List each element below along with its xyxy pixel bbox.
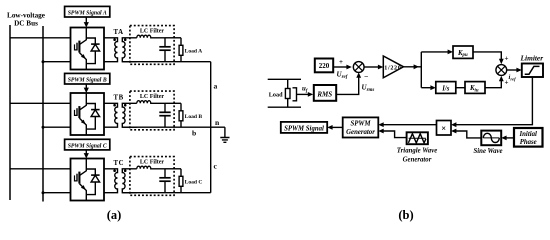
transformer TA primary winding	[104, 38, 118, 62]
filter inductor LC	[137, 166, 165, 169]
wire: filter bottom rail phase B	[122, 126, 181, 128]
svg-text:Limiter: Limiter	[520, 54, 544, 63]
svg-text:Load: Load	[269, 92, 283, 99]
LC filter dotted box phase B	[130, 91, 174, 130]
filter inductor LB	[137, 101, 165, 104]
IGBT QC: body bar	[78, 172, 80, 184]
filter capacitor CB	[164, 103, 166, 112]
svg-text:TA: TA	[114, 29, 124, 36]
IGBT QC: emitter with arrow	[79, 184, 86, 201]
SPWM Signal C label box	[65, 139, 110, 150]
svg-text:SPWM Signal A: SPWM Signal A	[68, 10, 107, 17]
transformer TC secondary polarity dot	[124, 169, 127, 172]
LC filter dotted box phase C	[130, 157, 174, 196]
svg-text:LC Filter: LC Filter	[140, 29, 164, 35]
wire: branch to 1/s with arrow	[421, 87, 432, 89]
svg-text:SPWM Signal B: SPWM Signal B	[68, 77, 108, 84]
IGBT QB: body bar	[78, 106, 80, 118]
branch node vertical	[420, 52, 422, 88]
wire: SPWM signal C arrow into inverter gate	[85, 150, 87, 155]
wire: 1/s to K_iu	[456, 87, 465, 89]
SPWM Signal B label box	[65, 73, 110, 84]
wire: SPWM signal B arrow into inverter gate	[85, 84, 87, 89]
transformer TA primary polarity dot	[113, 38, 116, 41]
K_pu proportional gain box	[453, 46, 473, 58]
IGBT QA: gate bar	[76, 43, 78, 51]
wire: inductor to load C top	[165, 168, 181, 170]
ground symbol	[220, 138, 229, 143]
load resistor Load A	[180, 38, 182, 46]
inverter box phase A	[71, 28, 105, 70]
IGBT QA: emitter with arrow	[79, 53, 86, 70]
wire: SPWM generator to SPWM signal	[331, 126, 343, 128]
wire: filter bottom rail phase A	[122, 61, 181, 63]
svg-text:1/220: 1/220	[384, 65, 401, 71]
load element in control diagram	[268, 79, 301, 107]
IGBT QC: collector lead	[79, 159, 86, 176]
K_iu integral gain box	[465, 82, 485, 94]
wire: load B output through node n	[181, 126, 225, 128]
IGBT QB: collector lead	[79, 93, 86, 110]
svg-text:SPWM Signal: SPWM Signal	[284, 125, 324, 132]
IGBT QC: gate lead	[75, 175, 77, 181]
multiplier box	[437, 121, 452, 136]
wire: neutral drop to ground	[224, 127, 226, 137]
filter inductor LA	[137, 35, 165, 38]
summing junction circle 2	[496, 65, 507, 76]
svg-text:SPWM: SPWM	[350, 121, 371, 128]
svg-text:Load A: Load A	[185, 48, 203, 54]
LC filter dotted box phase A	[130, 26, 174, 65]
wire: limiter output down and left to multiplier	[455, 77, 533, 125]
svg-text:220: 220	[319, 62, 330, 70]
limiter box with saturation curve	[522, 64, 543, 78]
wire: initial phase to sine wave	[505, 137, 515, 139]
svg-text:Generator: Generator	[346, 129, 375, 136]
transformer TA secondary polarity dot	[124, 38, 127, 41]
inverter box phase C	[71, 159, 105, 201]
wire: sine wave to multiplier	[455, 131, 482, 138]
svg-text:Triangle Wave: Triangle Wave	[397, 148, 437, 155]
DC bus line right	[42, 26, 44, 202]
svg-text:Load C: Load C	[185, 179, 203, 185]
wire: top DC feed to inverter B (from left bus)	[10, 102, 71, 104]
svg-text:+: +	[505, 55, 509, 63]
svg-text:−: −	[364, 72, 368, 81]
triangle wave generator box	[407, 132, 428, 144]
svg-text:LC Filter: LC Filter	[140, 160, 164, 166]
wire: K_iu output up into summing junction 2	[485, 80, 501, 88]
wire: summing junction 2 to limiter	[507, 69, 519, 71]
IGBT QB: gate lead	[75, 110, 77, 116]
transformer TC primary polarity dot	[113, 169, 116, 172]
junction dot on right bus, phase B	[42, 126, 45, 129]
wire: bottom DC feed to inverter C (from right bus)	[43, 192, 71, 194]
svg-text:SPWM Signal C: SPWM Signal C	[68, 142, 108, 149]
wire: Kpu output to summing junction 2	[473, 52, 501, 61]
svg-text:a: a	[214, 82, 218, 91]
wire: top DC feed to inverter A (from left bus)	[10, 37, 71, 39]
svg-text:DC Bus: DC Bus	[14, 20, 38, 28]
svg-text:Load B: Load B	[185, 114, 203, 120]
IGBT QA: collector lead	[79, 28, 86, 45]
transformer TB secondary winding	[122, 103, 137, 127]
wire: vertical output line (a/c)	[210, 62, 212, 193]
Initial Phase box	[514, 128, 543, 147]
svg-text:Initial: Initial	[519, 131, 537, 138]
wire: gain output to branch node	[404, 66, 422, 68]
wire: inductor to load B top	[165, 102, 181, 104]
wire: branch to Kpu with arrow	[421, 51, 449, 53]
wire: bottom DC feed to inverter B (from right bus)	[43, 126, 71, 128]
IGBT QA: body bar	[78, 41, 80, 53]
svg-text:Phase: Phase	[520, 139, 537, 146]
load resistor Load B	[180, 103, 182, 111]
wire: RMS output up into summing junction 1	[337, 76, 359, 94]
SPWM Signal A label box	[65, 6, 110, 17]
svg-text:×: ×	[441, 123, 446, 133]
IGBT QC: gate bar	[76, 174, 78, 182]
wire: filter bottom rail phase C	[122, 192, 181, 194]
svg-text:LC Filter: LC Filter	[140, 94, 164, 100]
svg-text:Low-voltage: Low-voltage	[7, 12, 45, 20]
DC bus line left	[9, 25, 11, 200]
1/s integrator box	[436, 82, 456, 94]
IGBT QB: emitter with arrow	[79, 118, 86, 135]
diode DA (anti-parallel)	[86, 38, 95, 64]
wire: load C output to line c	[181, 192, 211, 194]
svg-text:Sine Wave: Sine Wave	[474, 148, 503, 155]
filter capacitor CA	[164, 38, 166, 47]
svg-text:Generator: Generator	[403, 157, 432, 164]
svg-text:b: b	[192, 129, 196, 138]
gain triangle 1/220	[383, 56, 403, 78]
filter capacitor CC	[164, 169, 166, 178]
svg-text:RMS: RMS	[316, 90, 332, 98]
wire: inductor to load A top	[165, 37, 181, 39]
transformer TC secondary winding	[122, 169, 137, 193]
load resistor Load C	[180, 169, 182, 177]
wire: top DC feed to inverter C (from left bus)	[10, 168, 71, 170]
RMS box	[314, 85, 336, 101]
voltage probe bracket	[293, 88, 297, 101]
inverter box phase B	[71, 93, 105, 135]
wire: 220 to summing junction	[333, 66, 348, 68]
svg-text:TC: TC	[114, 160, 125, 167]
wire: u_f to RMS with arrow	[297, 93, 310, 95]
IGBT QB: gate bar	[76, 108, 78, 116]
summing junction circle 1	[353, 62, 364, 73]
wire: SPWM signal A arrow into inverter gate	[85, 17, 87, 24]
SPWM Generator box	[343, 117, 379, 137]
transformer TC primary winding	[104, 169, 118, 193]
svg-text:(a): (a)	[107, 208, 122, 222]
sine wave source box	[481, 131, 501, 146]
IGBT QA: gate lead	[75, 44, 77, 50]
junction dot on right bus, phase C	[42, 191, 45, 194]
transformer TA secondary winding	[122, 38, 137, 62]
junction dot on right bus, phase A	[42, 60, 45, 63]
wire: load A output to line a	[181, 61, 211, 63]
diode DB (anti-parallel)	[86, 104, 95, 130]
svg-text:I/s: I/s	[441, 86, 450, 93]
SPWM Signal output box	[281, 122, 327, 133]
220 reference box	[315, 59, 333, 73]
svg-text:+: +	[339, 58, 343, 66]
svg-text:TB: TB	[114, 95, 124, 102]
wire: summing junction 1 to 1/220 gain	[364, 66, 380, 68]
wire: bottom DC feed to inverter A (from right bus)	[43, 61, 71, 63]
transformer TB primary winding	[104, 103, 118, 127]
diode DC (anti-parallel)	[86, 169, 95, 195]
wire: triangle wave to SPWM generator	[382, 131, 407, 138]
wire: multiplier output to SPWM generator	[382, 124, 437, 126]
transformer TB secondary polarity dot	[124, 104, 127, 107]
svg-text:(b): (b)	[398, 208, 413, 222]
transformer TB primary polarity dot	[113, 104, 116, 107]
